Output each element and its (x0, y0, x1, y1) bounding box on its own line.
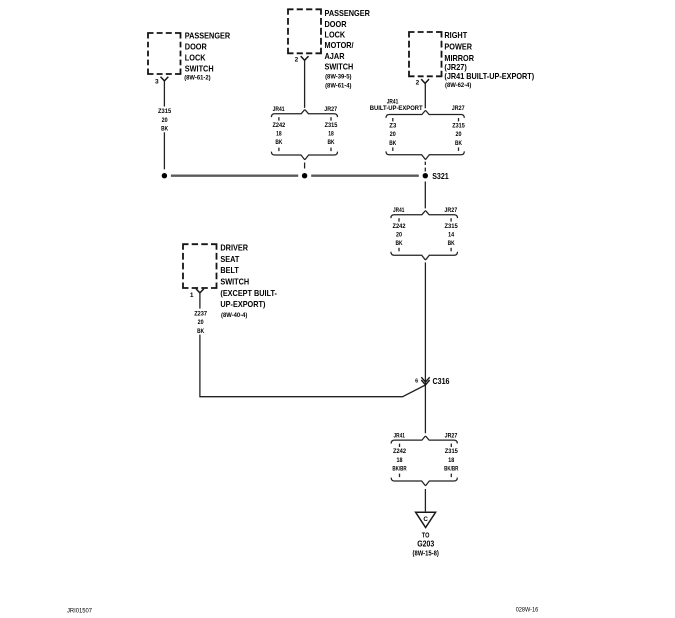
junction dot below passenger door lock switch (162, 173, 167, 178)
svg-text:MOTOR/: MOTOR/ (325, 41, 355, 50)
svg-text:(JR27): (JR27) (444, 63, 467, 72)
svg-text:2: 2 (416, 80, 420, 87)
svg-text:POWER: POWER (444, 43, 472, 52)
pin 2 of right power mirror (416, 80, 420, 87)
wire Z237 lower segment to connector C316 (200, 335, 426, 397)
component PASSENGER DOOR LOCK MOTOR/AJAR SWITCH (dashed box) (288, 9, 370, 89)
label JR41 (group A left) (273, 106, 285, 113)
top brace of group C (391, 211, 458, 218)
svg-text:(8W-39-5): (8W-39-5) (325, 74, 351, 81)
svg-text:SWITCH: SWITCH (220, 278, 249, 287)
svg-text:3: 3 (155, 79, 159, 86)
wire label Z237 20 BK (194, 310, 207, 334)
svg-text:6: 6 (415, 379, 418, 385)
tick marks below top brace of group A (279, 117, 331, 120)
bottom brace of group B (386, 151, 464, 159)
label JR27 (group C right) (444, 207, 457, 214)
label JR27 (group D right) (445, 432, 458, 439)
component PASSENGER DOOR LOCK SWITCH (dashed box) (148, 32, 230, 82)
wire Z237 upper segment (199, 293, 201, 309)
label TO G203 (8W-15-8) (413, 532, 439, 557)
svg-text:028W-16: 028W-16 (516, 607, 539, 614)
svg-text:JR27: JR27 (324, 106, 337, 113)
svg-text:BK: BK (161, 126, 168, 133)
svg-text:(JR41 BUILT-UP-EXPORT): (JR41 BUILT-UP-EXPORT) (444, 72, 534, 81)
svg-text:20: 20 (396, 231, 402, 238)
svg-text:Z3: Z3 (389, 123, 396, 130)
svg-text:BK: BK (275, 139, 282, 146)
svg-text:18: 18 (397, 457, 403, 464)
svg-text:BUILT-UP-EXPORT: BUILT-UP-EXPORT (370, 105, 423, 112)
svg-text:1: 1 (190, 292, 194, 299)
terminal arrow at door lock motor/ajar switch (301, 56, 309, 60)
svg-text:(8W-40-4): (8W-40-4) (221, 312, 247, 319)
pin 2 of door lock motor/ajar switch (295, 56, 299, 63)
svg-text:LOCK: LOCK (185, 54, 206, 63)
svg-text:20: 20 (162, 117, 168, 124)
svg-text:DOOR: DOOR (185, 43, 207, 52)
tick marks above bottom brace of group C (399, 248, 451, 252)
bottom brace of group C (391, 252, 458, 260)
junction dot of splice S321 (423, 173, 428, 178)
label S321 (432, 171, 449, 181)
svg-text:BK: BK (448, 240, 455, 247)
terminal arrow at driver seat belt switch (196, 289, 204, 293)
wire label Z315 20 BK (158, 108, 172, 132)
wire from right power mirror down to brace group B (424, 83, 426, 108)
tick marks below top brace of group D (400, 444, 452, 447)
wire label Z242 18 BK (group A left) (273, 122, 286, 146)
svg-text:PASSENGER: PASSENGER (325, 9, 371, 18)
wire label Z315 18 BK/BR (group D right) (444, 448, 459, 472)
tick marks below top brace of group B (393, 118, 459, 121)
pin 3 of passenger door lock switch (155, 79, 159, 86)
svg-text:JRI01507: JRI01507 (67, 608, 92, 615)
svg-text:DRIVER: DRIVER (220, 244, 248, 253)
svg-text:AJAR: AJAR (325, 52, 345, 61)
bottom brace of group A (271, 152, 337, 160)
tick marks above bottom brace of group A (279, 148, 331, 152)
svg-text:(8W-15-8): (8W-15-8) (413, 551, 439, 558)
svg-text:18: 18 (276, 130, 282, 137)
connector C316 double chevron symbol (421, 377, 429, 385)
svg-text:BK/BR: BK/BR (444, 465, 459, 472)
ground symbol C (triangle) (416, 512, 436, 527)
wire from group C down through connector C316 (424, 262, 426, 433)
tick marks above bottom brace of group D (400, 474, 452, 478)
svg-text:BK/BR: BK/BR (392, 465, 407, 472)
svg-text:JR41: JR41 (273, 106, 285, 113)
svg-text:BELT: BELT (220, 266, 239, 275)
svg-text:MIRROR: MIRROR (444, 54, 474, 63)
bus wire of splice S321 (left segment) (171, 175, 298, 177)
svg-text:Z242: Z242 (393, 223, 406, 230)
svg-text:SEAT: SEAT (220, 255, 239, 264)
svg-text:RIGHT: RIGHT (444, 31, 467, 40)
label JR41 (group D left) (394, 432, 406, 439)
svg-text:BK: BK (389, 140, 396, 147)
svg-text:(8W-62-4): (8W-62-4) (445, 82, 471, 89)
tick marks below top brace of group C (399, 218, 451, 221)
label C316 (433, 376, 450, 386)
label JR41 (group B left) (387, 98, 399, 105)
svg-text:(EXCEPT BUILT-: (EXCEPT BUILT- (220, 289, 277, 298)
svg-text:BK: BK (328, 139, 335, 146)
svg-text:C: C (423, 516, 428, 523)
wire Z315 from passenger door lock switch (upper segment) (163, 81, 165, 107)
svg-text:20: 20 (390, 131, 396, 138)
svg-text:20: 20 (456, 131, 462, 138)
svg-text:(8W-61-2): (8W-61-2) (184, 74, 210, 81)
terminal arrow at passenger door lock switch (161, 77, 169, 81)
svg-text:Z315: Z315 (444, 223, 458, 230)
svg-text:UP-EXPORT): UP-EXPORT) (220, 300, 265, 309)
component RIGHT POWER MIRROR (dashed box) (409, 31, 534, 89)
svg-text:Z315: Z315 (445, 448, 458, 455)
top brace of group B (386, 111, 464, 118)
svg-text:BK: BK (455, 140, 462, 147)
bottom brace of group D (391, 478, 457, 486)
svg-text:Z315: Z315 (325, 122, 338, 129)
wire label Z315 20 BK (group B right) (452, 123, 465, 147)
svg-text:SWITCH: SWITCH (185, 64, 214, 73)
svg-text:BK: BK (197, 328, 204, 335)
svg-text:JR41: JR41 (394, 432, 406, 439)
svg-text:JR27: JR27 (445, 432, 458, 439)
pin 6 of connector C316 (415, 379, 418, 385)
svg-text:Z242: Z242 (273, 122, 286, 129)
dashed wire from group A down to bus (304, 163, 306, 169)
label JR27 (group B right) (452, 105, 465, 112)
top brace of group D (391, 436, 457, 443)
svg-text:SWITCH: SWITCH (325, 63, 354, 72)
svg-text:DOOR: DOOR (325, 20, 347, 29)
junction dot below door lock motor/ajar switch (302, 173, 307, 178)
wire from door lock motor/ajar switch down to brace group A (304, 60, 306, 108)
label JR27 (group A right) (324, 106, 337, 113)
wire label Z315 14 BK (group C right) (444, 223, 458, 247)
dashed wire from group B down to splice S321 (424, 162, 426, 172)
svg-text:LOCK: LOCK (325, 31, 346, 40)
top brace of group A (271, 110, 337, 117)
wire Z315 lower segment to splice (163, 132, 165, 169)
tick marks above bottom brace of group B (393, 147, 459, 151)
label BUILT-UP-EXPORT (group B) (370, 105, 423, 112)
svg-text:S321: S321 (432, 171, 449, 181)
pin 1 of driver seat belt switch (190, 292, 194, 299)
svg-text:Z237: Z237 (194, 310, 207, 317)
footer drawing number JRI01507 (67, 608, 92, 615)
svg-text:G203: G203 (417, 539, 434, 548)
svg-text:JR27: JR27 (444, 207, 457, 214)
svg-text:14: 14 (448, 231, 454, 238)
wire label Z242 18 BK/BR (group D left) (392, 448, 407, 472)
footer page code 028W-16 (516, 607, 539, 614)
svg-text:C316: C316 (433, 376, 450, 386)
wire from group D down to ground symbol (424, 489, 426, 511)
bus wire of splice S321 (right segment) (311, 175, 419, 177)
svg-text:Z315: Z315 (158, 108, 172, 115)
wire from splice S321 down to brace group C (424, 182, 426, 209)
terminal arrow at right power mirror (421, 79, 429, 83)
wire label Z315 18 BK (group A right) (325, 122, 338, 146)
component DRIVER SEAT BELT SWITCH (dashed box) (183, 244, 277, 320)
svg-text:2: 2 (295, 56, 299, 63)
svg-text:20: 20 (198, 319, 204, 326)
wire label Z3 20 BK (group B left) (389, 123, 396, 147)
svg-text:(8W-61-4): (8W-61-4) (325, 82, 351, 89)
svg-text:Z242: Z242 (393, 448, 406, 455)
svg-text:18: 18 (328, 130, 334, 137)
svg-text:18: 18 (448, 457, 454, 464)
svg-text:BK: BK (396, 240, 403, 247)
svg-text:Z315: Z315 (452, 123, 465, 130)
wire label Z242 20 BK (group C left) (393, 223, 406, 247)
svg-text:JR41: JR41 (393, 207, 405, 214)
svg-text:JR27: JR27 (452, 105, 465, 112)
svg-text:PASSENGER: PASSENGER (185, 32, 231, 41)
label JR41 (group C left) (393, 207, 405, 214)
